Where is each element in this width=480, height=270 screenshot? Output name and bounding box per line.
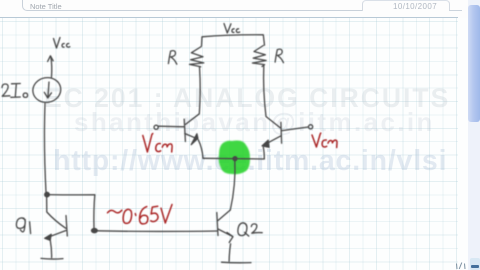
transistor Q1 collector wire (47, 196, 66, 228)
label Vcc (top-left) (54, 38, 61, 49)
right diff transistor base wire (282, 127, 308, 131)
watermark line 1 (44, 83, 450, 114)
input terminal left (open circle) (154, 125, 158, 129)
ground (Q1) (41, 257, 63, 260)
arrow inside current source (48, 82, 49, 97)
green highlighter blob (219, 141, 250, 175)
transistor Q2 collector (218, 210, 230, 221)
arrow up from source to Vcc (50, 57, 53, 78)
junction node A (45, 192, 50, 197)
transistor Q2 emitter (218, 229, 232, 236)
junction node B (92, 229, 98, 233)
label Q2 (238, 223, 249, 236)
tail node wire (emitters) (203, 157, 264, 160)
right diff transistor base bar (280, 122, 283, 143)
watermark line 3 (53, 145, 447, 178)
scrollbar (468, 0, 480, 270)
label R (right) (275, 49, 283, 63)
transistor Q1 emitter (47, 231, 66, 238)
ground (Q2) (222, 261, 252, 264)
junction tail node (233, 157, 237, 161)
date tab outline (362, 0, 450, 11)
red label Vcm (right) (312, 133, 321, 147)
right diff transistor collector lead from R2 (264, 66, 281, 128)
Q1 emitter lead (50, 241, 51, 258)
resistor R1 (190, 47, 204, 67)
left diff transistor emitter (185, 134, 198, 139)
transistor Q2 base bar (217, 213, 218, 236)
Q2 emitter lead (229, 244, 231, 261)
red label ~0.65V (108, 210, 122, 213)
wire from current source down to node A (44, 104, 46, 193)
right diff transistor emitter (264, 136, 282, 145)
label 2Io (2, 84, 10, 96)
label R (left) (168, 51, 176, 65)
resistor R2 (252, 46, 266, 67)
page indicator 1/1 (457, 263, 466, 270)
label Q1 (16, 218, 25, 232)
input terminal right (open circle) (309, 125, 313, 129)
left diff transistor base bar (184, 119, 185, 141)
wire down (Q1 collector-base tie) (93, 195, 96, 229)
label Vcc (bus) (224, 24, 231, 34)
wire node A to right (47, 194, 95, 196)
watermark line 2 (74, 107, 435, 138)
current source I1 circle (31, 75, 63, 104)
Vcc bus wire (202, 35, 265, 46)
wire base bus node B to Q2 base (97, 230, 217, 233)
transistor Q1 base bar (66, 216, 67, 237)
red label Vcm (left) (143, 134, 153, 153)
title tab outline (22, 0, 363, 11)
wire Q2 collector up to tail node (230, 159, 235, 210)
left diff transistor collector lead from R1 (186, 67, 201, 124)
left diff transistor base wire (158, 125, 184, 128)
